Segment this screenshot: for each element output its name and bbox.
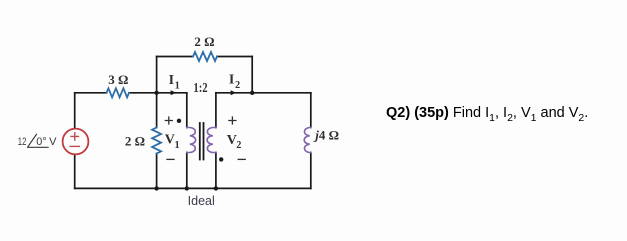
svg-text:j4 Ω: j4 Ω bbox=[313, 128, 339, 143]
wire: feedback top wire right of 2-ohm resistor bbox=[217, 56, 252, 58]
voltage source minus sign bbox=[70, 145, 79, 147]
svg-text:2 Ω: 2 Ω bbox=[194, 34, 214, 49]
svg-text:1: 1 bbox=[175, 140, 180, 151]
svg-text:1: 1 bbox=[175, 80, 180, 91]
svg-text:V: V bbox=[227, 133, 237, 148]
wire: transformer primary vertical top bbox=[186, 93, 188, 128]
transformer core bars bbox=[200, 123, 204, 160]
node B junction dot bbox=[250, 91, 254, 95]
svg-text:2: 2 bbox=[235, 80, 240, 91]
svg-text:Ideal: Ideal bbox=[188, 194, 215, 208]
svg-text:0°: 0° bbox=[36, 136, 46, 148]
wire: from 3-ohm resistor to primary top, through node A bbox=[129, 92, 187, 94]
svg-text:2: 2 bbox=[236, 140, 241, 151]
svg-text:V: V bbox=[49, 136, 57, 148]
wire: feedback branch left vertical (node A up) bbox=[156, 57, 158, 93]
current I2 arrow bbox=[231, 90, 237, 95]
wire: source branch vertical top bbox=[74, 93, 76, 129]
polarity plus of V1 bbox=[165, 117, 172, 124]
wire: transformer secondary vertical bottom bbox=[215, 153, 217, 189]
transformer secondary coil bbox=[207, 128, 216, 153]
wire: node A down to 2-ohm vertical resistor bbox=[156, 93, 158, 128]
inductor j4-ohm coil bbox=[304, 128, 311, 153]
wire: source branch vertical bottom bbox=[74, 154, 76, 188]
wire: feedback branch right vertical down to node B bbox=[251, 57, 253, 93]
wire: transformer primary vertical bottom bbox=[186, 153, 188, 189]
angle symbol underline bbox=[28, 146, 49, 148]
voltage source VS circle 12 angle 0 V bbox=[63, 129, 89, 155]
bottom junction dot at secondary bbox=[214, 186, 218, 190]
resistor R 3-ohm zigzag bbox=[107, 88, 130, 97]
wire: bottom return wire bbox=[75, 187, 311, 189]
wire: feedback top wire left of 2-ohm resistor bbox=[157, 56, 193, 58]
wire: transformer secondary vertical top bbox=[215, 93, 217, 128]
current I1 arrow bbox=[171, 90, 177, 95]
resistor R 2-ohm vertical zigzag bbox=[152, 128, 161, 154]
wire: j4-ohm branch vertical bottom bbox=[310, 153, 312, 189]
bottom junction dot at 2-ohm branch bbox=[154, 186, 158, 190]
svg-text:3 Ω: 3 Ω bbox=[108, 72, 128, 87]
svg-text:1:2: 1:2 bbox=[193, 80, 207, 95]
problem statement text Q2 bbox=[386, 105, 588, 121]
wire: top-left horizontal from source to 3-ohm resistor bbox=[75, 92, 107, 94]
svg-text:V: V bbox=[165, 133, 175, 148]
svg-text:I: I bbox=[169, 73, 174, 88]
wire: j4-ohm branch vertical top bbox=[310, 93, 312, 128]
node A junction dot bbox=[154, 91, 158, 95]
resistor R 2-ohm top feedback zigzag bbox=[193, 52, 217, 61]
angle symbol slash bbox=[28, 134, 37, 147]
bottom junction dot at primary bbox=[185, 186, 189, 190]
svg-text:2 Ω: 2 Ω bbox=[125, 133, 145, 148]
voltage source plus sign bbox=[71, 133, 79, 140]
svg-text:I: I bbox=[229, 73, 234, 88]
transformer primary coil bbox=[187, 128, 196, 153]
polarity plus of V2 bbox=[229, 117, 236, 124]
polarity minus of V2 bbox=[238, 158, 245, 160]
transformer polarity dot secondary bbox=[219, 157, 223, 161]
wire: secondary top wire to j4-ohm branch bbox=[216, 92, 311, 94]
transformer polarity dot primary bbox=[177, 119, 181, 123]
wire: below 2-ohm vertical resistor to bottom wire bbox=[156, 154, 158, 189]
svg-text:12: 12 bbox=[18, 136, 27, 148]
polarity minus of V1 bbox=[167, 158, 174, 160]
